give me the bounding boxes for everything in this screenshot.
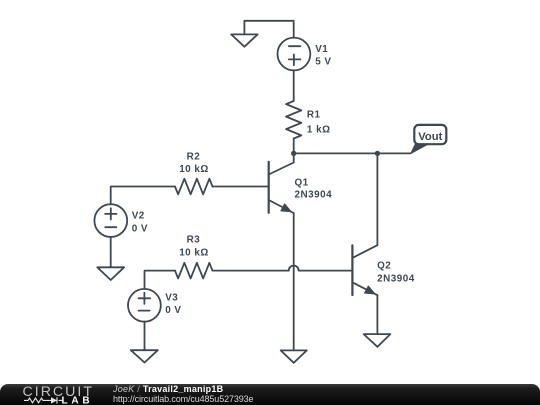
svg-text:2N3904: 2N3904 xyxy=(377,274,415,285)
svg-text:2N3904: 2N3904 xyxy=(295,189,333,200)
wire Q1 emitter down to ground xyxy=(293,213,295,350)
label R2 value 10 kOhm xyxy=(179,151,209,175)
svg-text:R1: R1 xyxy=(307,109,321,120)
label V2 value 0 V xyxy=(132,211,148,235)
svg-text:0 V: 0 V xyxy=(132,223,148,234)
svg-text:10 kΩ: 10 kΩ xyxy=(179,164,209,175)
svg-text:10 kΩ: 10 kΩ xyxy=(179,247,209,258)
svg-text:Vout: Vout xyxy=(418,131,442,143)
label V1 value 5 V xyxy=(315,44,331,68)
credits text xyxy=(113,385,253,404)
svg-text:1 kΩ: 1 kΩ xyxy=(307,124,331,135)
wire node to Vout xyxy=(294,152,411,154)
voltage source V1 xyxy=(278,38,311,71)
footer bar xyxy=(0,384,540,405)
voltage source V2 xyxy=(94,204,127,237)
svg-text:R3: R3 xyxy=(187,234,201,245)
voltage source V3 xyxy=(128,289,161,322)
node junction dot at Q2 collector branch xyxy=(375,151,380,156)
CircuitLab logo xyxy=(0,384,110,405)
ground (V3) xyxy=(131,350,158,362)
wire R3 to hop xyxy=(213,270,289,272)
ground (top, at V1 positive terminal) xyxy=(231,21,258,47)
label Q1 2N3904 xyxy=(295,178,333,201)
ground (Q2 emitter) xyxy=(364,334,391,347)
wire V3 to R3 xyxy=(145,271,176,289)
wire R1 bottom to node xyxy=(293,139,295,154)
node junction dot at R1/Q1 collector xyxy=(291,151,296,156)
label V3 value 0 V xyxy=(165,292,181,316)
svg-text:V1: V1 xyxy=(315,44,328,55)
wire V2 to R2 xyxy=(111,187,175,205)
label R1 value 1 kOhm xyxy=(307,109,331,135)
wire V2 bottom to ground xyxy=(110,237,112,267)
wire hop to Q2 base xyxy=(299,270,353,272)
resistor R2 xyxy=(175,179,213,195)
svg-text:0 V: 0 V xyxy=(165,305,181,316)
wire node to Q2 collector xyxy=(376,153,378,245)
label R3 value 10 kOhm xyxy=(179,234,209,258)
svg-text:Q2: Q2 xyxy=(377,261,391,272)
wire V1 bottom to R1 xyxy=(293,70,295,101)
svg-text:LAB: LAB xyxy=(62,395,94,405)
wire hop over Q1 emitter line xyxy=(289,266,299,271)
wire R2 to Q1 base xyxy=(213,186,269,188)
svg-text:V3: V3 xyxy=(165,292,178,303)
wire top ground to V1 top xyxy=(244,21,293,38)
net flag Vout xyxy=(411,125,447,154)
wire V3 bottom to ground xyxy=(144,322,146,351)
svg-text:Q1: Q1 xyxy=(295,178,309,189)
wire Q2 emitter to ground xyxy=(376,295,378,334)
svg-text:V2: V2 xyxy=(132,211,145,222)
resistor R1 xyxy=(286,101,301,139)
resistor R3 xyxy=(175,263,213,279)
label Q2 2N3904 xyxy=(377,261,415,285)
transistor Q2 xyxy=(352,245,377,295)
transistor Q1 xyxy=(269,153,294,213)
svg-text:5 V: 5 V xyxy=(315,56,331,67)
svg-text:R2: R2 xyxy=(187,151,201,162)
ground (V2) xyxy=(97,267,124,280)
ground (Q1 emitter) xyxy=(281,350,307,362)
